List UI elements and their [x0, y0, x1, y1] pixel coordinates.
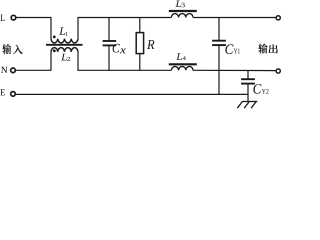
capacitor CY1 plates: [212, 40, 226, 42]
wire E rail: [15, 93, 248, 95]
label R: [147, 40, 155, 49]
wire bottom rail choke to L4: [78, 52, 171, 70]
resistor R body: [136, 33, 143, 54]
label input (Chinese 入): [13, 45, 23, 54]
capacitor Cx bottom lead: [108, 45, 110, 70]
label output (Chinese 出): [269, 44, 278, 53]
label L3: [175, 1, 181, 7]
L4 core bar: [169, 63, 197, 65]
ground hatch 3: [251, 102, 256, 109]
terminal N (input neutral): [11, 68, 16, 73]
inductor L1 (common-mode choke top winding): [51, 39, 78, 43]
wire top rail L3 to output terminal: [193, 17, 276, 19]
inductor L4: [171, 66, 193, 70]
choke core bar: [46, 44, 83, 46]
label L1: [59, 27, 65, 34]
capacitor CY2 plates: [241, 78, 255, 80]
capacitor CY2 top lead: [247, 70, 249, 79]
wire bottom rail L4 to output terminal: [193, 69, 276, 71]
L3 core bar: [169, 10, 197, 12]
capacitor CY2 bottom lead to ground: [247, 84, 249, 102]
label Cx: [113, 44, 120, 53]
label N: [1, 67, 7, 73]
capacitor CY1 top lead: [218, 18, 220, 41]
wire choke L2 left leg to N terminal: [15, 52, 51, 70]
terminal E (earth): [11, 92, 16, 97]
ground (chassis earth) bar: [242, 101, 257, 103]
resistor R top lead: [139, 18, 141, 33]
capacitor Cx plates: [103, 40, 117, 42]
label CY2: [253, 84, 261, 94]
inductor L3: [171, 14, 193, 18]
terminal output neutral: [276, 69, 280, 73]
capacitor CY1 bottom lead to E rail: [218, 45, 220, 94]
terminal output line: [276, 16, 280, 20]
label L: [1, 15, 5, 21]
label L4: [176, 53, 182, 59]
inductor L2 (common-mode choke bottom winding): [51, 48, 78, 52]
label CY1: [225, 44, 233, 54]
wire top rail choke to L3: [78, 18, 171, 39]
wire L terminal to choke left leg: [16, 18, 51, 39]
ground hatch 1: [237, 102, 242, 109]
phase dot L1: [53, 36, 56, 39]
capacitor Cx top lead: [108, 18, 110, 42]
terminal L (input line): [11, 15, 16, 20]
resistor R bottom lead: [139, 54, 141, 71]
phase dot L2: [53, 49, 56, 52]
label E: [0, 89, 4, 95]
label output (Chinese 输): [258, 44, 267, 54]
label L2: [61, 54, 67, 61]
label input (Chinese 输): [2, 44, 11, 54]
ground hatch 2: [244, 102, 249, 109]
